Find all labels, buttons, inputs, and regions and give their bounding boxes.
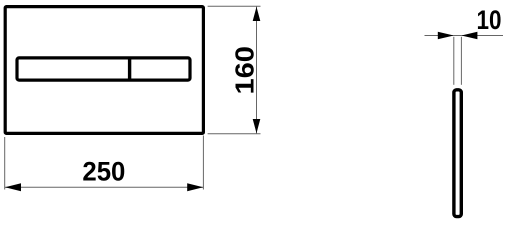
arrow pointing right (10) [438,32,454,40]
extension line left (10) [453,37,455,85]
button divider [128,58,131,80]
arrow down (160) [253,119,261,133]
dimension line 160 [256,6,258,134]
svg-text:10: 10 [477,5,502,35]
extension line left (250) [4,137,6,190]
arrow left (250) [5,183,21,191]
extension line bottom (160) [208,133,261,135]
actuation button outline [17,58,190,80]
dimension line 250 [5,186,203,188]
extension line right (10) [460,37,462,85]
plate front view outline [5,7,203,134]
dimension tail left (10) [425,35,454,37]
extension line top (160) [208,5,261,7]
extension line right (250) [202,136,204,190]
arrow up (160) [253,7,261,21]
arrow right (250) [187,183,203,191]
side view plate bar [454,90,461,217]
svg-text:160: 160 [232,46,260,95]
dimension line segment between (10) [454,35,462,37]
arrow pointing left (10) [461,32,477,40]
dimension tail right (10) [461,35,503,37]
svg-text:250: 250 [82,157,125,187]
